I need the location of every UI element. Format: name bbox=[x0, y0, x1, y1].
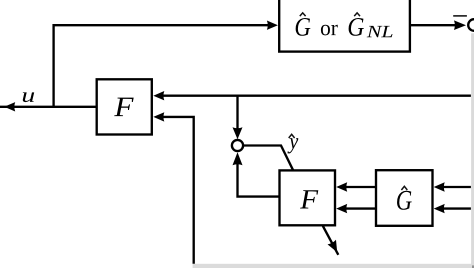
wire input 2 into G-hat from right edge bbox=[439, 207, 471, 209]
wire feedback line A into F top input bbox=[157, 95, 471, 97]
gray horizontal feedback line at bottom edge bbox=[193, 264, 474, 268]
block F (left controller) bbox=[97, 79, 152, 134]
wire branch down from line A into lower summing junction bbox=[236, 96, 238, 136]
wire G-hat output 1 into F2 (upper) bbox=[341, 186, 376, 188]
gray vertical feedback line at right edge bbox=[471, 33, 474, 268]
block G-hat (lower model) bbox=[376, 170, 433, 226]
block G-hat or G-hat-NL (top model box, clipped at top) bbox=[279, 0, 410, 52]
wire from lower junction to F2 top (with y-hat label) bbox=[243, 146, 293, 171]
wire F2 left output up into lower summing junction bbox=[238, 156, 280, 197]
wire from junction up-left into model box input bbox=[54, 25, 273, 107]
wire F2 bottom output arrow (diagonal down-right) bbox=[323, 226, 338, 255]
label y-hat bbox=[288, 134, 299, 153]
wire model box output to top summing junction bbox=[410, 24, 459, 26]
label F (lower) bbox=[300, 190, 318, 208]
label G-hat or G-hat-NL bbox=[296, 13, 393, 37]
summing junction (lower) bbox=[232, 140, 243, 151]
wire input 1 into G-hat from right edge bbox=[439, 186, 471, 188]
label F (left) bbox=[114, 98, 134, 117]
minus sign at top summing junction bbox=[453, 15, 467, 17]
block F (lower estimator) bbox=[280, 170, 336, 225]
summing junction (top right, clipped at edge) bbox=[468, 19, 474, 31]
frame corner (bottom right) bbox=[472, 265, 474, 268]
wire G-hat output 2 into F2 (lower) bbox=[341, 207, 376, 209]
label G-hat (lower) bbox=[397, 186, 412, 210]
wire second feedback into F (from bottom via long vertical) bbox=[157, 117, 194, 264]
label u bbox=[23, 92, 34, 102]
wire F output to u (left, with arrow) bbox=[0, 106, 96, 108]
